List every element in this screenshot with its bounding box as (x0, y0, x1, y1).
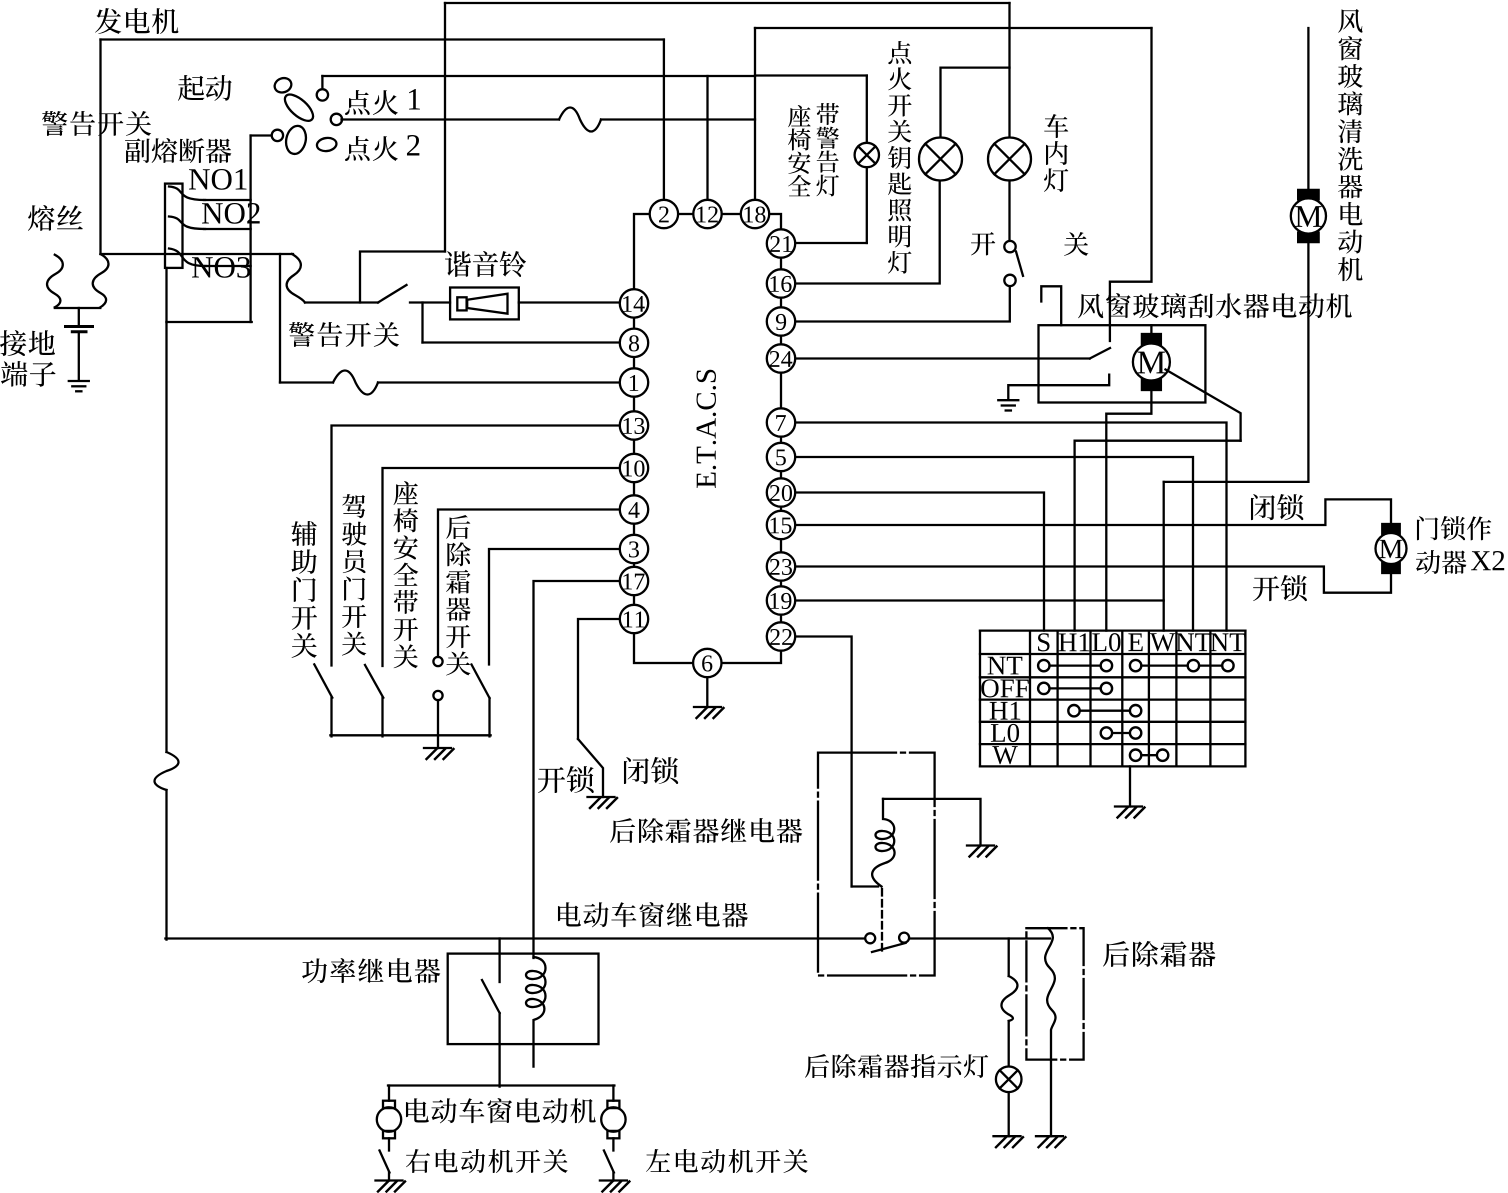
label window relay (558, 902, 581, 926)
defroster relay box (818, 753, 935, 976)
wire main battery bus (101, 253, 294, 255)
seatbelt switch contact lower (433, 691, 442, 700)
left motor switch blade (380, 1151, 390, 1173)
ignition contact ign2 (331, 114, 342, 125)
label fuse (28, 205, 55, 231)
defroster relay coil (872, 799, 894, 887)
left window motor terminal bottom (383, 1131, 395, 1138)
wire ignition-1 stub (321, 76, 323, 87)
wire pin1 right (378, 381, 621, 383)
wire pin5 (795, 457, 1193, 631)
wire subfuse bottom to riser (165, 268, 167, 322)
label chime (445, 251, 471, 277)
left window motor (377, 1107, 401, 1131)
wire armature link (1075, 441, 1241, 631)
warning switch blade (378, 285, 407, 303)
label ground terminal 2 (1, 361, 27, 387)
aux door switch blade (314, 664, 332, 697)
label wiper motor (1078, 294, 1103, 319)
wire key lamp feed (941, 68, 1010, 138)
label ignition1 (345, 90, 370, 115)
label kai (971, 232, 995, 255)
fuse left leg (47, 255, 63, 308)
wire generator output bus (101, 38, 664, 40)
wire pin4 (438, 510, 621, 658)
wire pin9 (795, 287, 1010, 322)
chime bell horn (467, 294, 507, 314)
ETACS pin 13 (620, 411, 648, 439)
ETACS pin 22 (767, 622, 795, 650)
wire to chime (410, 301, 450, 303)
table row W (992, 746, 1017, 764)
label defroster indicator (805, 1054, 829, 1078)
ground indicator (994, 1135, 1021, 1137)
wire pin6 ground lead (706, 677, 708, 707)
ignition rotor ellipse 2 (284, 124, 309, 156)
table header E (1128, 633, 1142, 651)
wire generator-box right edge (444, 3, 446, 252)
key illumination lamp (919, 138, 962, 181)
driver door switch blade (365, 665, 383, 698)
ignition rotor ellipse 3 (316, 137, 337, 153)
label rear defroster (1103, 941, 1129, 967)
wire power-window bus (165, 937, 864, 939)
label interior lamp (1044, 114, 1068, 138)
ETACS pin 3 (620, 535, 648, 563)
wire warning switch (305, 301, 378, 303)
chime bell magnet (457, 297, 466, 310)
wire pin1 left (280, 381, 333, 383)
label lock right (1251, 494, 1275, 520)
seatbelt warning lamp (855, 143, 879, 167)
wire top bus (445, 2, 1010, 4)
washer motor (1298, 190, 1319, 200)
sub-fuse body (165, 184, 183, 268)
label warning switch lower (289, 322, 314, 347)
label ignition2 (345, 136, 370, 161)
wire fuse bottom (55, 307, 101, 309)
ignition contact common (272, 130, 283, 141)
table contact circles (1038, 660, 1234, 761)
defroster switch blade (472, 665, 490, 699)
ETACS pin 12 (693, 200, 721, 228)
wire NO2 (204, 228, 251, 230)
label aux door switch (292, 521, 317, 546)
wire pin15 lock-out (795, 499, 1391, 525)
wire pin22 (795, 637, 852, 887)
ETACS pin 7 (767, 408, 795, 436)
wiper low throw (1008, 375, 1109, 400)
ground terminal plate small (72, 330, 86, 333)
wiper motor box (1039, 325, 1206, 402)
label seatbelt lamp col1 (788, 105, 811, 127)
label seatbelt lamp col2 (817, 103, 839, 125)
wire pin23 unlock-out (795, 567, 1391, 593)
wire driver door switch lower (381, 698, 383, 737)
label warning switch upper (42, 111, 67, 136)
right window motor (601, 1107, 625, 1131)
wire door switch bus (330, 734, 490, 736)
rear defroster indicator lamp (996, 1067, 1022, 1093)
wire power relay out (498, 1013, 500, 1087)
wire right motor lower (612, 1138, 614, 1150)
warning switch supply break (287, 254, 305, 303)
ignition rosette contact start (273, 76, 294, 95)
ETACS pin 6 (693, 649, 721, 677)
table row NT (988, 657, 1006, 675)
ground door switches (424, 747, 451, 749)
wire jog to warning switch (360, 252, 445, 303)
wire motor bus (388, 1084, 614, 1086)
interior switch contact upper (1004, 241, 1015, 252)
right window motor terminal top (607, 1101, 619, 1108)
wire fuse collector vertical (249, 136, 251, 323)
wire lock diag to ground (578, 739, 603, 797)
wire pin8 riser (421, 303, 423, 343)
wire pin12 feed (706, 76, 708, 202)
ETACS pin 16 (767, 269, 795, 297)
wire generator-box left edge (99, 40, 101, 255)
wire pin7 (795, 423, 1227, 631)
wire element to ground (1050, 1060, 1052, 1137)
ETACS pin 1 (620, 368, 648, 396)
wire fuse to terminal (78, 308, 80, 327)
label key illumination (888, 41, 911, 64)
wire seatbelt lamp box bottom to pin21 (781, 242, 867, 244)
ETACS pin 14 (620, 289, 648, 317)
wire chime to pin14 (519, 301, 621, 303)
wire ignition-2 bus left (342, 118, 560, 120)
label left motor switch (646, 1149, 670, 1172)
wire ignition-1 bus (322, 75, 755, 77)
ETACS pin 10 (620, 454, 648, 482)
label defroster switch (446, 515, 470, 539)
wiper motor feed stub (1150, 325, 1152, 337)
label start (178, 75, 205, 101)
label seatbelt switch (394, 481, 418, 505)
label unlock left (538, 767, 565, 793)
ETACS pin 21 (767, 229, 795, 257)
ETACS pin 11 (620, 605, 648, 633)
wire indicator upper (1008, 1021, 1010, 1067)
wire lock link (1164, 481, 1309, 483)
wire left riser lower (165, 790, 167, 940)
wire pin18 feed (754, 28, 756, 202)
wire collector to left riser (167, 321, 252, 323)
ETACS pin 4 (620, 495, 648, 523)
wire washer to lock bus (1307, 236, 1309, 482)
interior switch blade (1016, 252, 1023, 276)
ETACS body outline (634, 214, 781, 663)
rear defroster element (1045, 928, 1055, 1059)
left window motor terminal top (383, 1101, 395, 1108)
ground right motor switch (600, 1179, 627, 1181)
wire pin13 (332, 426, 622, 666)
defroster relay blade (872, 943, 906, 952)
wire seatbelt lamp box right (866, 76, 868, 244)
fuse right leg (93, 254, 109, 307)
table header NT1 (1176, 633, 1194, 651)
ETACS pin 19 (767, 586, 795, 614)
wire pin11 lock (578, 619, 621, 739)
right motor switch blade (604, 1151, 614, 1173)
chime bell box (450, 288, 519, 320)
right window motor terminal bottom (607, 1131, 619, 1138)
indicator wavy (1001, 976, 1017, 1021)
label lock left (624, 757, 649, 784)
table contact links (1044, 664, 1107, 666)
ETACS pin 15 (767, 511, 795, 539)
wire upper feed to wiper (755, 27, 1152, 29)
wire ignition-2 bus right (601, 118, 755, 120)
label ground terminal 1 (0, 330, 26, 356)
wire break on left riser (155, 752, 179, 790)
ETACS pin 5 (767, 443, 795, 471)
wire defroster switch lower (488, 698, 490, 736)
table header L0 (1092, 633, 1106, 651)
door lock actuator (1382, 524, 1400, 534)
ETACS pin 9 (767, 307, 795, 335)
interior lamp (988, 138, 1031, 181)
wire pin19 (795, 599, 1164, 601)
wiper motor (1142, 334, 1161, 345)
label ETACS (696, 370, 716, 488)
label driver door switch (342, 494, 365, 518)
wire pin24 (795, 357, 1090, 359)
table header H1 (1059, 634, 1077, 652)
table row H1 (990, 702, 1008, 720)
wire left motor lead (388, 1086, 390, 1101)
wire NO1 (204, 199, 251, 201)
seatbelt switch contact upper (433, 657, 442, 666)
wire pin2 feed (663, 40, 665, 202)
power relay coil (526, 957, 546, 1067)
label NO2 (202, 203, 223, 223)
power relay blade (482, 980, 500, 1013)
wiper switch table grid (979, 631, 981, 767)
table header NT2 (1210, 633, 1228, 651)
table row L0 (991, 724, 1005, 742)
ground wiper (998, 399, 1018, 401)
wire NO3 (205, 265, 251, 267)
defroster relay armature link (881, 889, 883, 952)
wire table E ground lead (1129, 766, 1131, 806)
sub-fuse NO2 link (169, 217, 205, 230)
wire seatbelt lamp box top (755, 74, 867, 76)
wire pin17 unlock (534, 581, 622, 958)
sub-fuse NO1 link (169, 187, 205, 201)
wire break on ignition-2 bus (559, 108, 601, 132)
power relay switch stub (498, 939, 500, 983)
table row OFF (981, 679, 998, 697)
ground terminal ground (69, 380, 89, 382)
wire pin10 (383, 468, 622, 666)
wire power-window bus right (910, 937, 1051, 939)
sub-fuse NO3 link (169, 249, 206, 267)
wire pin16 (795, 181, 940, 284)
label door lock actuator 1 (1417, 516, 1438, 540)
wire wiper motor bottom (1106, 387, 1151, 631)
wire seatbelt lower (437, 700, 439, 748)
wire washer feed (1307, 28, 1309, 196)
interior switch contact lower (1004, 275, 1015, 286)
defroster relay contact right (899, 933, 909, 943)
wire left motor switch lead (388, 1173, 390, 1181)
wire pin20 (795, 493, 1044, 631)
label window motor (406, 1098, 429, 1122)
wire break on pin1 (333, 371, 378, 395)
ignition rotor ellipse 1 (281, 90, 318, 125)
label generator (95, 8, 121, 34)
wire right motor switch lead (612, 1173, 614, 1181)
label sub-fuse (125, 138, 150, 163)
label door lock actuator X2 (1471, 551, 1491, 570)
wire interior lamp to switch (1008, 181, 1010, 241)
ETACS pin 8 (620, 329, 648, 357)
defroster relay contact left (865, 933, 875, 943)
ground terminal plate (66, 325, 93, 328)
label NO1 (189, 169, 210, 189)
ETACS pin 18 (741, 200, 769, 228)
wire indicator lower (1008, 1092, 1010, 1136)
ground table (1115, 805, 1142, 807)
label defroster relay (610, 818, 635, 843)
label ignition1 n (409, 89, 420, 109)
wire defroster relay coil top (883, 799, 981, 845)
ignition contact ign1 (317, 89, 328, 100)
wire aux door switch lower (330, 698, 332, 737)
wiper connector bracket (1041, 286, 1061, 325)
ground element (1036, 1135, 1063, 1137)
wire lock riser to table W (1163, 482, 1165, 631)
rear defroster box (1026, 928, 1083, 1059)
wire relay coil link (852, 885, 878, 887)
label right motor switch (406, 1149, 430, 1173)
label NO3 (192, 257, 213, 277)
wire interior lamp feed (1008, 3, 1010, 138)
wire terminal to ground (78, 332, 80, 381)
ground defroster relay coil (967, 844, 994, 846)
wire right motor lead (612, 1086, 614, 1101)
label unlock right (1253, 576, 1279, 601)
label power relay (302, 958, 327, 983)
table header W (1150, 633, 1175, 651)
ETACS pin 24 (767, 344, 795, 372)
wire wiper armature diag (1166, 370, 1241, 441)
ground left motor switch (376, 1179, 403, 1181)
wire left motor lower (388, 1138, 390, 1150)
ETACS pin 17 (620, 567, 648, 595)
ETACS pin 20 (767, 478, 795, 506)
wire left riser upper (165, 322, 167, 752)
ground lock (588, 796, 615, 798)
ground pin6 (694, 706, 721, 708)
wire pin3 (489, 549, 621, 665)
wiper feed jog (1110, 28, 1152, 341)
ETACS pin 2 (650, 200, 678, 228)
wiper switch blade (1090, 348, 1110, 359)
wire pin8 (423, 341, 622, 343)
wire ignition common (251, 134, 272, 136)
table header S (1038, 633, 1050, 651)
label washer motor (1338, 9, 1362, 33)
label guan (1064, 232, 1088, 256)
label ignition2 n (407, 135, 419, 156)
power relay box (448, 954, 599, 1045)
ETACS pin 23 (767, 552, 795, 580)
label door lock actuator 2 (1416, 550, 1440, 574)
wire pin1 riser (279, 254, 281, 383)
wire indicator branch (1008, 939, 1010, 977)
